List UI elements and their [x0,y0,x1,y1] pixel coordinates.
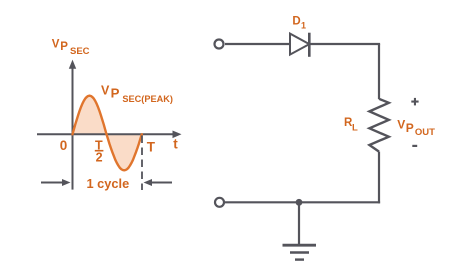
svg-text:SEC(PEAK): SEC(PEAK) [122,94,173,104]
svg-text:P: P [60,41,68,53]
svg-text:1 cycle: 1 cycle [87,176,130,191]
svg-text:V: V [52,38,60,50]
svg-text:P: P [111,86,120,101]
svg-text:D: D [292,15,300,27]
svg-text:0: 0 [60,138,68,153]
svg-text:V: V [397,117,405,131]
svg-text:t: t [173,137,178,152]
svg-text:1: 1 [301,21,306,31]
svg-text:T: T [147,139,156,154]
svg-text:P: P [406,121,414,135]
svg-text:V: V [101,83,110,97]
svg-text:SEC: SEC [70,46,90,57]
svg-text:OUT: OUT [415,127,435,138]
svg-text:2: 2 [96,150,103,164]
svg-text:L: L [352,123,358,134]
